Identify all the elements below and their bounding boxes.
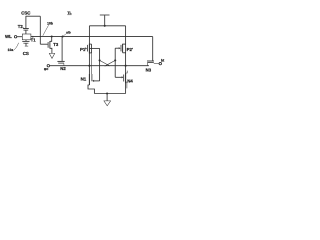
- svg-text:WL: WL: [5, 34, 12, 39]
- transistor T2 channel bar: [23, 28, 29, 30]
- wire P1 source to N1 gate (faint): [91, 53, 93, 74]
- svg-text:s/b: s/b: [66, 31, 71, 35]
- node 10b leader: [43, 25, 49, 36]
- wire CSC loop left vertical: [25, 16, 27, 28]
- svg-text:N2: N2: [60, 66, 66, 71]
- transistor P1' gate arrowhead: [85, 47, 87, 49]
- wire left column: [88, 26, 90, 85]
- wire cross-couple diagonal A: [100, 60, 110, 66]
- node junction dot H1 left column: [88, 65, 90, 67]
- transistor T2 gate bar: [24, 29, 29, 31]
- svg-text:CS: CS: [23, 51, 29, 56]
- wire right cross column: [114, 48, 116, 77]
- transistor P2' gate bar: [120, 45, 122, 52]
- wire P1' source to N1 gate: [91, 44, 93, 53]
- wire bit line BL: [31, 36, 153, 38]
- node junction dot left cross column: [99, 59, 101, 61]
- transistor N1 gate lead: [94, 80, 100, 82]
- svg-text:10a: 10a: [8, 48, 14, 52]
- transistor N4 source stub: [126, 82, 127, 88]
- ground symbol triangle: [104, 101, 111, 106]
- transistor N3 gate bar: [147, 62, 154, 64]
- wire bottom rail: [94, 93, 125, 95]
- node junction dot T3 drain on BL: [51, 35, 53, 37]
- svg-text:CSC: CSC: [21, 11, 31, 16]
- transistor P1' drain jog to bit line: [89, 43, 91, 45]
- ground stem: [106, 94, 108, 102]
- capacitor CS lower stub: [25, 43, 27, 46]
- wire equalize line H1: [50, 65, 149, 67]
- node TL underline: [67, 14, 71, 16]
- wire bit line right drop: [152, 37, 154, 61]
- transistor N4 gate lead: [115, 76, 121, 78]
- transistor N4 drain stub top: [126, 71, 128, 73]
- terminal phi-c circle: [47, 65, 49, 67]
- wire right column: [125, 26, 127, 94]
- wire cross-couple diagonal B: [105, 60, 116, 66]
- wire left cross column: [99, 48, 101, 81]
- transistor T2 stub to box: [25, 30, 27, 34]
- transistor N2 channel bar: [57, 60, 64, 62]
- wire CSC loop right vertical: [39, 16, 41, 44]
- wire VDD rail: [89, 25, 125, 27]
- transistor P2' channel bar: [122, 44, 124, 53]
- wire WL to T1: [17, 36, 23, 38]
- transistor P2' source jog bottom: [123, 52, 126, 54]
- node junction dot bottom rail: [106, 92, 108, 94]
- transistor T3 channel bar: [49, 41, 51, 49]
- transistor T1 box (cell access transistor): [22, 34, 31, 40]
- transistor N2 gate bar: [58, 62, 64, 64]
- terminal WL circle: [14, 36, 16, 38]
- svg-text:10b: 10b: [47, 22, 53, 26]
- transistor T3 source lead: [50, 48, 52, 53]
- capacitor CS bottom plate: [23, 42, 28, 44]
- svg-text:T3: T3: [53, 42, 59, 47]
- transistor N2 drain lead from BL: [61, 37, 63, 62]
- ground symbol below T3: [49, 53, 54, 58]
- node s/b leader: [63, 34, 66, 36]
- svg-text:T1: T1: [31, 37, 37, 42]
- node tick right of box: [32, 36, 34, 38]
- capacitor CS stub from box: [25, 40, 27, 42]
- terminal phi-t circle: [159, 62, 161, 64]
- transistor P1' gate bar: [87, 45, 89, 52]
- wire H1 jog up to N3 gate: [146, 63, 148, 66]
- transistor N4 channel bar: [125, 73, 127, 83]
- transistor P2' gate arrowhead: [119, 47, 121, 49]
- transistor N3 channel bar: [147, 60, 154, 62]
- transistor N4 gate arrowhead: [122, 76, 124, 78]
- node junction dot right cross column: [114, 59, 116, 61]
- node 10a leader arrow: [14, 43, 19, 50]
- transistor N1 channel bar: [88, 74, 90, 85]
- transistor P2' gate lead from cross column: [115, 47, 119, 49]
- node junction dot VDD rail: [104, 25, 106, 27]
- transistor N2 gate jog: [63, 63, 65, 65]
- svg-text:T2: T2: [18, 24, 24, 29]
- transistor N1 source jog to rail: [88, 85, 94, 94]
- node junction dot H1 right column: [125, 65, 127, 67]
- transistor T2 leader: [23, 27, 25, 28]
- transistor P1' channel bar: [88, 44, 90, 54]
- svg-text:N4: N4: [127, 78, 133, 83]
- transistor P1' source jog down: [89, 52, 91, 54]
- transistor T3 gate bar: [47, 42, 49, 48]
- power VDD stem: [104, 15, 106, 25]
- node junction dot N2 drain on BL: [62, 35, 64, 37]
- transistor N3 gate lead to terminal: [154, 62, 159, 64]
- transistor N4 gate bar: [123, 75, 125, 82]
- transistor T3 drain lead: [50, 37, 52, 42]
- capacitor CS top plate: [22, 40, 29, 42]
- svg-text:P2': P2': [127, 47, 133, 52]
- svg-text:N1: N1: [81, 76, 87, 81]
- svg-text:φc: φc: [44, 67, 49, 71]
- svg-text:TL: TL: [67, 11, 72, 15]
- wire CSC loop bottom to T3 gate: [40, 43, 48, 45]
- transistor N1 gate bar: [91, 74, 93, 81]
- wire CSC loop top: [26, 15, 40, 17]
- svg-text:N3: N3: [146, 68, 152, 73]
- capacitor CS plate tick: [25, 45, 28, 47]
- transistor N1 gate arrowhead: [92, 80, 94, 82]
- power VDD bar: [100, 14, 110, 16]
- wire P1' output to left cross column: [89, 47, 99, 49]
- svg-text:bt: bt: [161, 59, 165, 63]
- transistor P2' drain jog top: [123, 43, 126, 45]
